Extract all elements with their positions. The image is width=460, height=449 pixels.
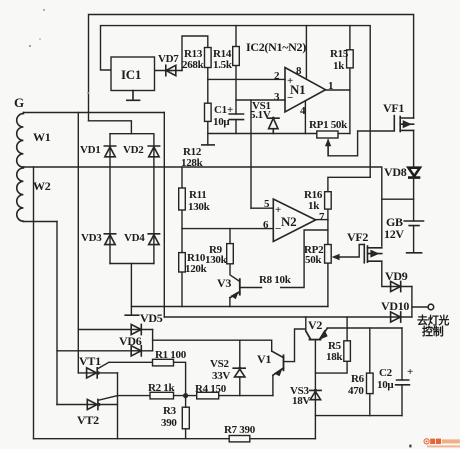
svg-text:V2: V2 [308,318,322,332]
diode VD5 [131,324,141,334]
wire VS2 bottom stem [239,377,241,396]
svg-text:VT1: VT1 [79,354,101,368]
resistor R12 [205,103,212,121]
RP1 wiper arrow [325,139,331,147]
chassis bar under R12 [202,144,214,146]
svg-text:G: G [14,95,24,110]
svg-text:VD7: VD7 [158,53,179,65]
resistor R14 [233,47,240,66]
svg-text:VF1: VF1 [383,101,404,115]
wire V3 base to R8 [240,287,261,289]
resistor R16 [325,192,332,209]
svg-text:6: 6 [263,219,269,231]
svg-text:VD9: VD9 [385,269,408,283]
svg-text:VD10: VD10 [381,299,409,313]
wire V1 base link to V2 collector [283,329,305,362]
svg-text:5: 5 [264,198,270,210]
svg-text:N2: N2 [281,214,296,229]
resistor R9 [227,244,234,264]
svg-text:R8 10k: R8 10k [259,274,292,286]
wire RP1 right lead [338,133,350,135]
capacitor C1 [229,114,243,120]
MOSFET VF2 [364,245,382,263]
wire VT1 anode rail [78,372,117,374]
resistor R1 [152,359,173,366]
wire R15 column top [349,26,351,50]
wire VF1 source through VD8 [413,130,415,167]
svg-text:+: + [287,75,293,87]
svg-text:VF2: VF2 [347,230,368,244]
wire R16 top link to long vertical [328,177,370,191]
wire R14 bottom to N1 pin3 and C1 top [236,66,285,101]
wire V1 emitter drop [272,375,274,395]
generator G coil W2 [17,167,24,222]
wire V2 emitter rail [327,327,402,329]
wire VD6 branch [57,350,153,352]
svg-text:控制: 控制 [422,324,444,338]
wire N1 pin1 output [326,89,350,91]
wire generator right drop [163,112,165,317]
potentiometer RP2 [325,245,332,264]
diode VD6 [131,346,141,356]
wire W2 column to VD6 and VT2 [56,221,58,404]
wire R6 bottom [369,394,371,416]
wire W2 bottom lead [23,220,57,222]
wire top supply rail from bridge to VF1 drain [89,14,414,120]
zener VS1 [268,117,279,134]
wire R2 R4 rail to V1 emitter [117,395,272,397]
wire VD5 VD6 output to V1 collector [153,340,272,351]
resistor R15 [347,50,354,68]
wire N2 pin7 output [316,219,328,221]
svg-text:VD4: VD4 [124,232,145,244]
chassis bar under GB [407,252,422,254]
wire bridge right vertical [153,134,155,264]
wire R11 to R10 link [181,210,183,253]
svg-text:IC1: IC1 [121,67,141,82]
wire VT1 cathode drop column [116,373,118,439]
watermark logo [409,439,460,448]
wire VD5 VD6 junction link [152,329,154,350]
svg-text:R11: R11 [189,189,206,201]
RP1 wiper stem [327,144,329,156]
wire VS3 bottom rail to R6 C2 [315,415,402,417]
wire VD9 to VD10 link [411,287,413,318]
wire node rail B to VD10 [164,316,412,318]
wire RP1 wiper to VF1 gate [328,131,394,156]
MOSFET VF1 [394,116,413,132]
resistor R7 [229,436,250,442]
diode VD7 [166,65,176,75]
wire R13 loop box from VD7 [182,36,208,71]
wire RP2 bottom stem to node rail A [327,263,329,306]
wire RP2 top stem [327,220,329,245]
svg-text:+: + [275,204,281,216]
potentiometer RP1 [317,131,338,138]
thyristor VT2 [87,396,117,410]
wire R5 bottom to V2 base [315,361,347,373]
svg-text:R1 100: R1 100 [155,349,187,361]
svg-text:R6: R6 [351,373,365,385]
svg-text:128k: 128k [181,157,204,169]
svg-text:130k: 130k [188,201,211,213]
wire V2 collector riser [306,317,311,339]
svg-text:VD3: VD3 [81,232,102,244]
wire R12 top stem [207,79,209,103]
resistor R3 [182,407,189,429]
wire R12 bottom stem to chassis bar [207,121,209,144]
diode VD2 [148,146,159,157]
wire bridge top rail [110,133,152,135]
thyristor VT1 [87,362,109,378]
svg-text:VD6: VD6 [119,334,142,348]
paper specks [29,9,172,94]
svg-text:VD5: VD5 [140,311,163,325]
svg-text:1: 1 [328,80,333,92]
wire R1 rail [109,362,186,395]
wire R10 bottom to node rail [181,272,183,307]
wire R5 top riser [346,317,348,341]
wire left ground column [32,167,34,439]
wire output terminal lead [412,306,428,308]
svg-text:−: − [275,223,281,235]
svg-text:V3: V3 [217,276,231,290]
wire N2 pin6 input [182,228,273,230]
svg-text:10μ: 10μ [213,116,230,128]
junction dot R2 R3 R4 [183,393,188,398]
IC1 box [111,57,155,91]
wire VD5 branch [78,328,152,330]
wire VF2 source to VD9 [382,261,412,286]
generator G coil W1 [17,112,24,167]
resistor R4 [197,392,219,399]
svg-text:12V: 12V [384,227,404,241]
wire C2 top riser [401,328,403,380]
wire bridge bottom rail [110,262,154,264]
wire V3 collector from R9 [230,264,240,282]
wire branch to GB and VD8 column [382,198,414,200]
svg-text:470: 470 [348,385,364,397]
chassis bar under bridge [125,314,139,316]
resistor R5 [344,341,351,362]
wire bridge positive feed corner [89,121,132,134]
op-amp N1 [285,68,326,112]
wire N2 pin5 input [251,207,273,209]
svg-text:3: 3 [274,91,280,103]
svg-text:W1: W1 [33,130,51,144]
svg-text:2: 2 [274,70,280,82]
wire W1 column to VD5 and VT1 [77,112,79,372]
svg-text:R3: R3 [163,405,177,417]
wire VS2 top stem [239,340,241,368]
RP2 wiper lead to VF2 gate [338,245,364,258]
wire bridge lower stem to chassis bar [130,263,132,315]
svg-text:18V: 18V [292,395,310,407]
wire long middle rail y167 [23,166,370,168]
wire C1 top hang [235,100,237,114]
wire C1 bottom stem [235,120,237,134]
wire IC1 output to VD7 [155,69,183,71]
wire N1 pin2 input from R13 bottom [208,78,285,80]
wire V2 base column [314,340,316,439]
wire C2 bottom [401,385,403,416]
resistor R11 [179,188,186,210]
wire R9 top stem [229,229,231,244]
battery GB [404,221,423,226]
wire N1 pin4 drop [304,101,306,134]
svg-text:VD8: VD8 [384,165,407,179]
wire R15 column bottom to RP1 right lead [349,68,351,134]
wire y167 extension to VF2 drain [370,167,382,246]
wire R6 top riser [369,328,371,373]
svg-text:C1: C1 [214,104,227,116]
output terminal circle [428,304,434,310]
svg-text:8: 8 [296,65,302,77]
wire R16 bottom stem [327,209,329,220]
svg-text:IC2(N1~N2): IC2(N1~N2) [246,40,306,54]
svg-text:+: + [227,104,233,116]
zener VS2 [233,367,245,377]
capacitor C2 [396,380,410,385]
resistor R6 [366,373,373,394]
wire node rail A [131,305,327,307]
svg-text:去灯光: 去灯光 [417,313,449,327]
resistor R13 [205,47,212,67]
RP2 wiper arrow [332,254,340,260]
svg-text:390: 390 [161,417,177,429]
diode VD10 [391,312,401,322]
wire R11 top stem [181,167,183,188]
wire second rail from IC1 input to long right vertical [101,26,371,178]
svg-text:1k: 1k [333,60,345,72]
wire V3 emitter drop [229,298,231,307]
wire VS1 pin5 reference column [250,100,252,208]
diode VD9 [391,281,401,291]
wire reference rail under C1 VS1 to RP1 [208,132,317,134]
svg-text:10μ: 10μ [377,379,394,391]
svg-text:V1: V1 [257,352,271,366]
wire R3 bottom stem [185,429,187,439]
svg-text:33V: 33V [212,370,230,382]
svg-text:RP1 50k: RP1 50k [309,119,348,131]
resistor R2 [150,392,174,399]
svg-text:50k: 50k [305,254,322,266]
wire VT2 anode rail [57,403,118,405]
wire R14 top riser [235,26,237,47]
transistor V1 [272,351,284,375]
svg-text:+: + [407,366,413,378]
svg-text:R15: R15 [330,48,349,60]
svg-text:1.5k: 1.5k [213,59,233,71]
svg-text:130k: 130k [205,254,228,266]
wire GB bottom stem [413,226,415,253]
svg-text:5.1V: 5.1V [250,109,271,121]
op-amp N2 [273,199,315,242]
diode VD3 [104,234,115,245]
wire VD8 to GB [413,178,415,221]
svg-text:4: 4 [300,105,306,117]
diode VD1 [104,146,115,157]
svg-text:R7 390: R7 390 [224,424,256,436]
zener VS3 [310,389,321,400]
transistor V2 [306,328,327,339]
IC1 ground [127,90,140,100]
zener VD8 bold [408,168,420,178]
wire W1 top lead [23,111,164,113]
svg-text:R4 150: R4 150 [195,383,227,395]
svg-text:VD2: VD2 [123,144,144,156]
svg-text:7: 7 [319,211,325,223]
wire R3 stems [185,396,187,408]
svg-text:−: − [287,92,293,104]
transistor V3 [230,279,240,298]
svg-text:VD1: VD1 [80,144,101,156]
svg-text:VT2: VT2 [77,413,99,427]
svg-text:1k: 1k [308,200,320,212]
svg-text:268k: 268k [182,59,205,71]
wire bridge left vertical [109,134,111,264]
resistor R10 [179,253,186,272]
diode VD4 [148,234,159,245]
wire N1 pin8 riser [305,26,307,79]
svg-text:VS2: VS2 [210,358,229,370]
svg-text:18k: 18k [326,351,343,363]
svg-text:W2: W2 [33,179,51,193]
wire bottom ground rail [33,438,315,440]
svg-text:R2 1k: R2 1k [148,382,175,394]
wire R13 bottom stem [207,67,209,79]
svg-text:C2: C2 [379,367,393,379]
wire R8 to N2 pin7 node [281,230,328,288]
